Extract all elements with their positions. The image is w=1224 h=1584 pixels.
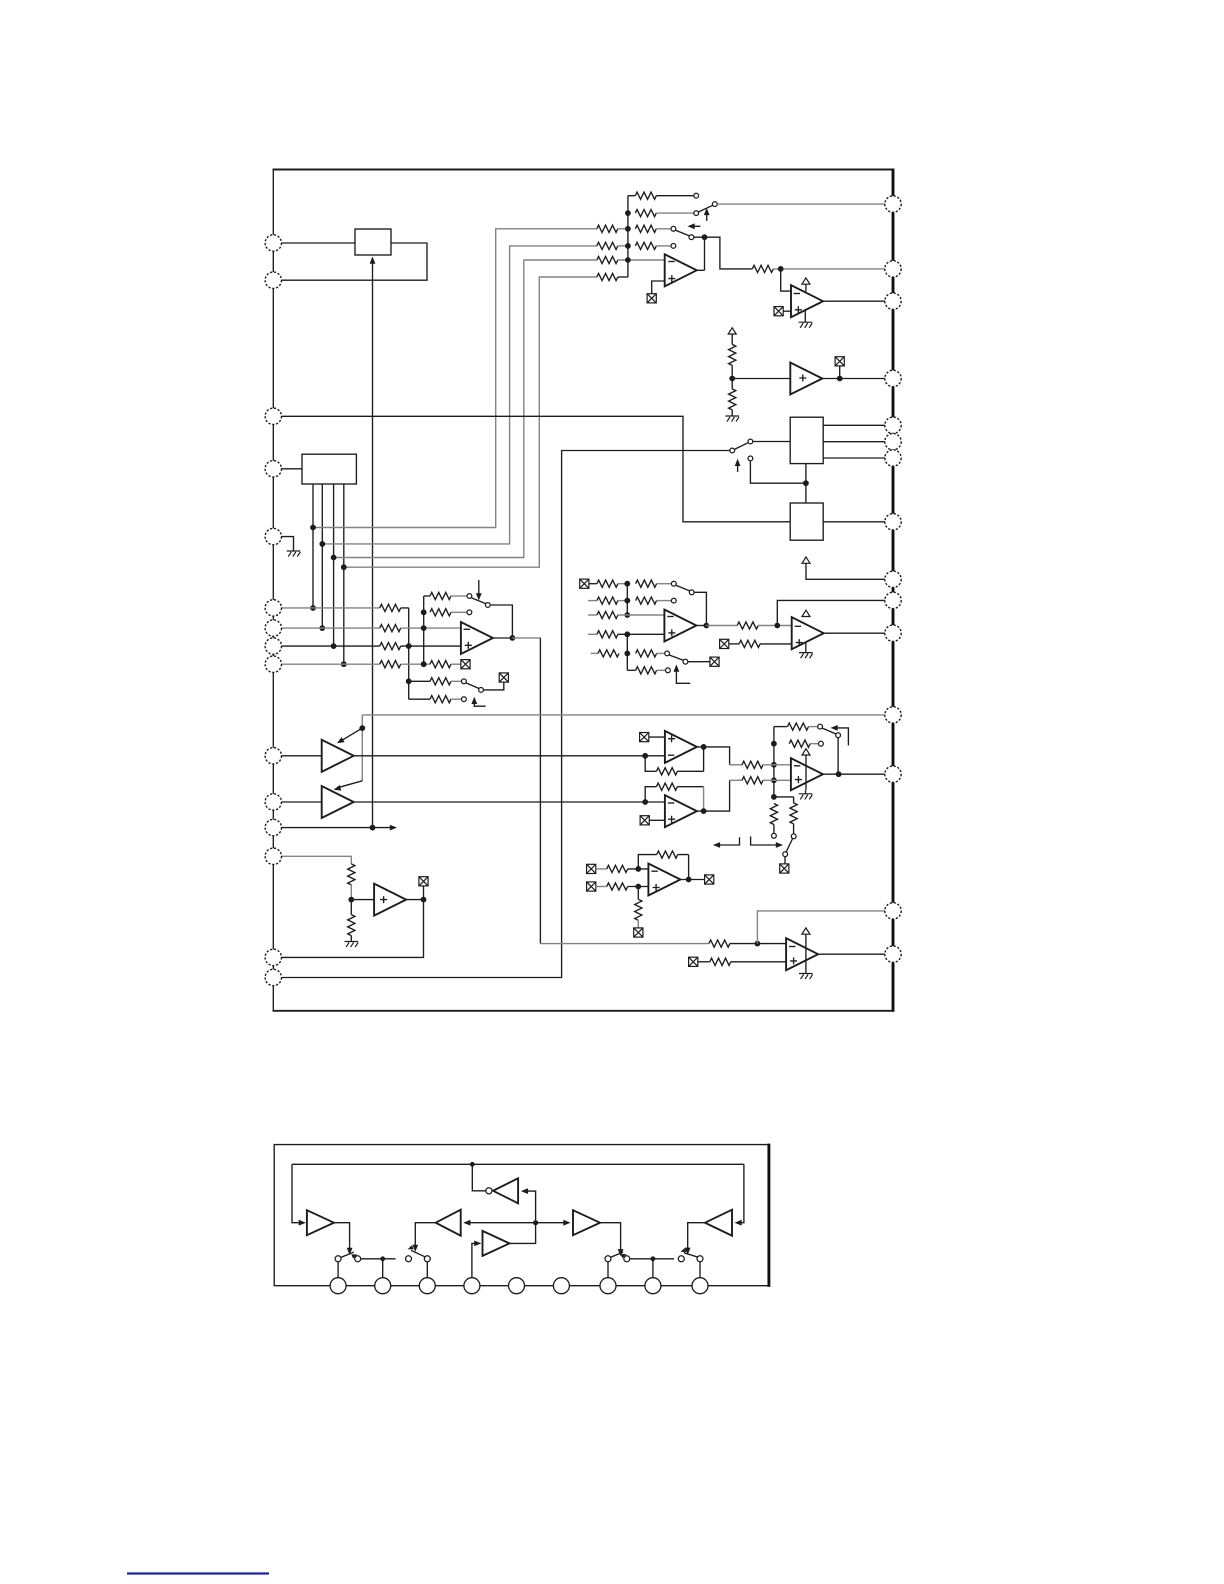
U6 output wire <box>493 637 513 639</box>
U10 feedback resistor R41 <box>656 783 677 790</box>
plus ladder resistor R20 <box>409 698 430 700</box>
op-amp U12 mixer3 <box>664 610 696 642</box>
switch S1 contact a <box>335 1256 341 1262</box>
box B1 <box>790 417 823 463</box>
arrow into buffer U8 <box>337 781 362 788</box>
op-amp U4 <box>791 285 823 317</box>
pin 25 <box>885 434 901 450</box>
pad 9 <box>692 1278 708 1294</box>
top mixer summing bus vertical <box>627 196 629 277</box>
A3 output wire down to switch S3 <box>600 1223 621 1252</box>
wire ladder pole to X-box <box>483 682 503 690</box>
pin 6 <box>265 600 281 616</box>
plus ladder row C throw contact <box>462 679 467 684</box>
U16 output wire to pin 15b <box>818 953 885 955</box>
junction dot divider tap <box>729 376 735 382</box>
feedback row A resistor R34 <box>774 726 788 728</box>
pin 7 input wire <box>281 627 380 629</box>
top mixer row5 input resistor R7 <box>597 256 618 263</box>
switch S3 contact a <box>605 1256 611 1262</box>
junction dot at U10 output <box>701 808 707 814</box>
U11 output wire <box>406 899 423 901</box>
power symbol above U16 <box>802 928 810 934</box>
U9 feedback lower wire <box>645 756 656 772</box>
stem junction to pad 2 <box>382 1259 384 1278</box>
pin 17 <box>885 903 901 919</box>
junction dot above pad 2 <box>380 1256 385 1261</box>
pin 5 <box>265 528 281 544</box>
pin 1 <box>265 235 281 251</box>
bias switch lever <box>786 839 792 852</box>
mute resistor R18 <box>430 661 451 668</box>
mixer3 row6 throw contact <box>666 668 671 673</box>
reference X-box at U3 + input <box>647 294 656 303</box>
pin 4 wire into control box <box>281 468 302 470</box>
blue footer rule <box>127 1572 269 1574</box>
junction dot U15 minus node <box>635 866 641 872</box>
junction dot at U15 output <box>686 877 692 883</box>
pin 9 <box>265 656 281 672</box>
buffer op-amp U11 <box>374 884 406 916</box>
U10 output wire <box>697 810 704 812</box>
bias right throw contact <box>791 834 796 839</box>
arrowhead into latch box bottom <box>370 257 376 264</box>
switch S2 contact b <box>424 1256 430 1262</box>
X-box at U15 non-inverting input <box>587 882 596 891</box>
U8 output wire to U10 inverting input <box>354 801 665 803</box>
wire row9 to mute resistor <box>401 663 430 665</box>
junction dot at U9 output <box>701 744 707 750</box>
top mixer row4 series resistor R6 <box>635 242 656 249</box>
pin 13b wire to divider resistor <box>281 856 351 864</box>
feedback row A throw contact <box>467 594 472 599</box>
wire S3b to junction and dashed stub <box>630 1258 674 1260</box>
pad 7 <box>600 1278 616 1294</box>
wire box B1 bottom to box B2 <box>805 464 807 503</box>
selector lever <box>734 443 748 450</box>
X-box below R45 <box>634 928 643 937</box>
wire feedback pole to U14 output <box>837 738 839 775</box>
wire divider tap to buffer U5 <box>732 378 790 380</box>
X-box at mute resistor <box>461 660 470 669</box>
pin 8 <box>265 638 281 654</box>
bus 2 routing wire to top mixer row 4 <box>322 246 597 544</box>
wire row8 to U6 non-inverting input <box>401 645 461 647</box>
control box U2 <box>302 454 356 484</box>
box B2 output wire to pin 22 <box>823 521 885 523</box>
series resistor R33 at U13 + input <box>739 640 760 647</box>
op-amp U13 <box>792 617 824 649</box>
wire row3 to U12 inverting input <box>618 614 665 616</box>
feedback switch pole contact <box>836 733 841 738</box>
ground below U14 <box>805 790 807 794</box>
junction dot U11 input <box>348 897 354 903</box>
buffer A1 <box>307 1210 334 1235</box>
pad 2 <box>375 1278 391 1294</box>
wire S1b to junction and dashed stub <box>361 1258 396 1260</box>
U10 feedback upper wire <box>645 787 656 802</box>
mixer3 upper bus vertical <box>626 584 628 615</box>
filter block outline top border <box>274 1144 770 1146</box>
bias resistor R38 left <box>770 804 777 825</box>
ground below R22 <box>345 942 359 948</box>
arrow into buffer U7 <box>341 728 363 741</box>
plus ladder switch lever <box>466 683 479 689</box>
switch S4 contact a <box>678 1256 684 1262</box>
series resistor R37 plus path <box>742 777 763 784</box>
junction dot at U14 output <box>836 771 842 777</box>
pin 11 <box>265 794 281 810</box>
junction dots mixer3 lower <box>624 631 630 656</box>
feedback resistor R17 row B <box>430 609 451 616</box>
divider resistor R10 upper <box>729 344 736 365</box>
series resistor R46 into U16 <box>709 940 730 947</box>
X-box above ladder pole <box>499 673 508 682</box>
mixer3 row5 throw contact <box>665 651 670 656</box>
pin 24 <box>885 450 901 466</box>
stem S3a to pad 7 <box>607 1262 609 1278</box>
junction dot at U5 output <box>837 376 843 382</box>
wire throw A to box B1 <box>753 441 790 443</box>
selector throw A contact <box>748 439 753 444</box>
latch box U1 top-left <box>355 229 391 255</box>
junction dot U15 plus node <box>635 884 641 890</box>
U9 output wire <box>697 746 704 748</box>
junction dots mixer3 upper <box>624 581 630 618</box>
X-box feeding mixer3 row1 <box>580 579 589 588</box>
U15 feedback resistor R44 <box>657 851 678 858</box>
pin 16 <box>885 946 901 962</box>
top mixer row3 throw contact <box>671 226 676 231</box>
wire bias pole to X-box <box>784 857 786 864</box>
op-amp U16 <box>786 938 818 970</box>
switch S2 contact a <box>406 1256 412 1262</box>
pin 13 <box>265 848 281 864</box>
filter block outline right border (thick) <box>767 1144 770 1287</box>
U11 output route to pin 14 <box>281 900 423 958</box>
feedback row A throw contact <box>818 724 823 729</box>
ladder control arrow <box>474 700 485 706</box>
U15 input resistor R42 <box>607 865 628 872</box>
pin 21 <box>885 592 901 608</box>
junction dot above pad 8 <box>651 1256 656 1261</box>
wire U12 output to resistor R32 <box>706 625 737 627</box>
mixer3 mute switch pole <box>683 659 688 664</box>
X-box at U9 + input <box>640 733 649 742</box>
feedback resistor R16 row A <box>424 595 430 597</box>
box B2 <box>790 503 823 540</box>
U5 output wire to pin 26 <box>822 378 885 380</box>
top mixer row1 feedback resistor R1 <box>635 192 656 199</box>
bus 3 routing wire to top mixer row 5 <box>334 260 597 558</box>
mixer3 row4 stub and resistor R28 <box>588 633 597 635</box>
junction dot row2 on bus <box>625 210 631 216</box>
U9 feedback resistor R40 <box>656 768 677 775</box>
inverter A5 bubble <box>486 1188 492 1194</box>
stem S1a to pad 1 <box>337 1262 339 1278</box>
junction dots on control bus lines <box>310 525 347 668</box>
pad 8 <box>645 1278 661 1294</box>
wire down into U4 inverting input <box>781 269 791 291</box>
main node wire into A3 <box>536 1222 567 1224</box>
switch S1 lever with arrow <box>341 1252 354 1257</box>
U10 output jog to U14 non-inverting input <box>704 780 730 811</box>
mixer3 row2 throw contact <box>671 598 676 603</box>
feedback row B throw contact <box>467 610 472 615</box>
top mixer row3 input resistor R3 <box>597 225 618 232</box>
buffer A6 <box>483 1231 510 1256</box>
junction dot between boxes <box>803 480 809 486</box>
pin 3 <box>265 408 281 424</box>
top mixer row2 feedback resistor R2 <box>635 210 656 217</box>
wire upper pole to U12 output <box>694 592 706 625</box>
feedback switch lever <box>822 728 836 734</box>
pad 4 <box>464 1278 480 1294</box>
mixer2 feedback bus vertical <box>423 596 425 664</box>
IC block outline left border <box>272 169 274 1011</box>
power symbol above U4 <box>802 278 810 284</box>
X-box at mute pole <box>710 657 719 666</box>
main node wire up into inverter A5 <box>524 1191 535 1223</box>
box B1 output wires to pins 25,24,23 <box>823 425 885 458</box>
A4 output wire down to switch S4 <box>688 1223 705 1250</box>
junction dot at U9 inverting input <box>642 753 648 759</box>
pad 6 <box>553 1278 569 1294</box>
feedback bus vertical <box>773 727 775 797</box>
junction dot at U6 output <box>510 635 516 641</box>
X-box below bias switch <box>780 864 789 873</box>
A6 output wire up to main node <box>510 1223 536 1244</box>
pin 12 wire with direction arrow <box>281 827 392 829</box>
pin 27 <box>885 370 901 386</box>
mixer3 row6 resistor R31 <box>627 669 635 671</box>
pin 11 wire into buffer U8 <box>281 801 322 803</box>
divider resistor R11 lower <box>729 389 736 410</box>
switch S3 lever with arrow <box>611 1252 624 1257</box>
mixer2 input resistor R12 <box>380 604 401 611</box>
X-box above U11 output <box>419 877 428 886</box>
mixer2 gain switch pole <box>485 603 490 608</box>
U13 output wire to pin 18 <box>824 632 886 634</box>
mixer3 lower bus vertical <box>626 634 628 670</box>
selector throw B contact <box>748 456 753 461</box>
junction dot SW2 node <box>702 234 708 240</box>
main node junction dot <box>533 1220 538 1225</box>
X-box at U4 + input <box>774 307 783 316</box>
op-amp U14 <box>791 758 823 790</box>
stem S2b to pad 3 <box>426 1262 428 1278</box>
wire top left down to buffer A1 <box>292 1164 300 1222</box>
selector switch SW2 pole contact <box>689 235 694 240</box>
feedback wire to pin 19 <box>777 600 885 625</box>
top mixer row6 input resistor R8 <box>597 273 618 280</box>
junction dots mixer2 <box>406 609 427 684</box>
SW2 control arrow left <box>692 225 701 227</box>
resistor R22 below U11 input <box>350 900 352 915</box>
mixer2 gain switch lever <box>472 598 486 604</box>
wire top right down into A4 <box>737 1164 744 1222</box>
power symbol above U14 <box>802 749 810 755</box>
control line from latch box down to pin-11 wire <box>372 262 374 828</box>
plus ladder row D throw contact <box>462 697 467 702</box>
wire SW1 pole to pin 30 <box>717 203 885 205</box>
pin 4 <box>265 461 281 477</box>
mixer2 gain control arrow <box>478 580 480 596</box>
X-box at U15 inverting input <box>587 864 596 873</box>
pin 13 wire up to selector pole <box>281 451 730 978</box>
wire mute pole to X-box <box>688 661 710 663</box>
pin 9 input wire <box>281 663 380 665</box>
bias ladder branch wire <box>774 797 794 803</box>
pin 7 <box>265 620 281 636</box>
pin 14 <box>265 949 281 965</box>
pin 22 <box>885 571 901 587</box>
junction dot at U11 output <box>421 897 427 903</box>
op-amp U10 <box>665 795 697 827</box>
buffer A3 <box>573 1210 600 1235</box>
stem S4b to pad 9 <box>699 1262 701 1278</box>
inverter A5 (left-pointing) <box>493 1178 518 1203</box>
ground below divider <box>725 416 739 422</box>
mixer3 row5 stub and resistor R29 <box>591 652 598 654</box>
X-box at U15 output <box>705 875 714 884</box>
pin 6 input wire <box>281 607 380 609</box>
control bus line 2 vertical <box>321 484 323 628</box>
buffer U8 <box>322 786 354 818</box>
resistor R45 below U15 plus node <box>637 887 639 900</box>
mixer3 row3 stub and resistor R27 <box>588 614 597 616</box>
feedback row B throw contact <box>819 741 824 746</box>
top mixer row4 input resistor R5 <box>597 242 618 249</box>
pin 29 <box>885 261 901 277</box>
pin 10 wire into buffer U7 <box>281 755 322 757</box>
junction dot at U13 inverting node <box>774 623 780 629</box>
U6 output long route to tone amp <box>512 637 540 639</box>
U7 output wire to U9 inverting input <box>354 755 665 757</box>
SW1 control arrow up <box>706 212 708 221</box>
wire into buffer U11 <box>351 899 374 901</box>
junction dot on top wire <box>470 1162 475 1167</box>
wire row4 to U12 non-inverting input <box>618 633 665 635</box>
bias resistor R39 right <box>790 803 797 824</box>
U16 feedback wire to pin 15 <box>757 911 885 944</box>
mixer2 input resistor R15 <box>380 661 401 668</box>
pin 2 <box>265 272 281 288</box>
junction dot at U10 inverting input <box>642 799 648 805</box>
junction dot at R9 output <box>778 266 784 272</box>
U3 output wire up to SW2 node <box>697 237 705 270</box>
IC block outline bottom border <box>273 1010 895 1012</box>
pad 3 <box>419 1278 435 1294</box>
junction dot at U12 output <box>704 623 710 629</box>
plus ladder resistor R19 <box>409 680 430 682</box>
U3 non-inverting input wire <box>652 281 665 294</box>
mixer3 row1 series resistor R24 <box>636 580 657 587</box>
junction dot U16 inverting node <box>755 941 761 947</box>
mixer3 row2 stub and resistor R25 <box>588 600 597 602</box>
bus 1 routing wire to top mixer row 3 <box>313 229 597 528</box>
junction dot row3 on bus <box>625 226 631 232</box>
U15 output wire <box>680 879 704 881</box>
pad 5 <box>509 1278 525 1294</box>
top mixer row1 throw contact <box>694 193 699 198</box>
wire gain pole to U6 output <box>490 605 512 638</box>
ground below U4 <box>804 311 806 323</box>
pin 19 <box>885 707 901 723</box>
top mixer row3 series resistor R4 <box>635 225 656 232</box>
pin 23 <box>885 514 901 530</box>
wire U3 output through resistor R9 to pin 29 <box>752 265 773 272</box>
U4 output wire to pin 28 <box>823 300 885 302</box>
A2 output wire down to switch S2 <box>415 1223 435 1248</box>
junction dot on gray wire <box>359 725 365 731</box>
IC block outline top border <box>273 169 894 171</box>
op-amp U9 <box>665 731 697 763</box>
mixer3 row2 series resistor R26 <box>636 597 657 604</box>
buffer op-amp U5 <box>790 363 822 395</box>
U9 output jog to U14 inverting input <box>704 747 730 765</box>
series resistor R36 minus path <box>742 761 763 768</box>
bias left throw contact <box>772 833 777 838</box>
mixer3 row5 series resistor R30 <box>636 650 657 657</box>
pin 1 wire into latch box <box>281 242 355 244</box>
mute control arrow <box>676 668 690 683</box>
mixer3 gain switch lever upper <box>676 585 690 591</box>
U15 input resistor R43 <box>607 883 628 890</box>
power symbol above U13 <box>802 610 810 616</box>
series resistor R32 <box>737 622 758 629</box>
pin 18 <box>885 766 901 782</box>
filter top distribution wire <box>292 1163 744 1165</box>
IC block outline right border (thick) <box>892 169 895 1012</box>
ground below U13 <box>805 642 807 653</box>
gain switch SW1 pole contact <box>712 202 717 207</box>
pin 12 <box>265 819 281 835</box>
junction dot row4 on bus <box>625 243 631 249</box>
U12 output wire <box>696 625 706 627</box>
control bus line 3 vertical <box>333 484 335 646</box>
switch S1 contact b <box>355 1256 361 1262</box>
junction dots feedback bus <box>771 741 777 800</box>
op-amp U3 summing amp <box>665 254 697 286</box>
pin 15 <box>265 969 281 985</box>
switch S3 contact b <box>624 1256 630 1262</box>
mixer2 input resistor R14 <box>380 643 401 650</box>
X-box at U10 + input <box>640 816 649 825</box>
mixer3 row1 resistor R23 <box>597 580 618 587</box>
pin 10 <box>265 748 281 764</box>
switch S4 contact b <box>697 1256 703 1262</box>
pin 20 <box>885 625 901 641</box>
top mixer row4 throw contact <box>671 244 676 249</box>
pin 28 <box>885 293 901 309</box>
mixer3 mute switch lever <box>669 655 683 660</box>
junction dot row5 on bus <box>625 257 631 263</box>
selector control arrow up <box>737 462 739 472</box>
A1 output wire down to switch S1 <box>334 1223 350 1251</box>
filter block outline bottom border <box>274 1285 770 1287</box>
pin 5 wire to ground <box>281 537 293 551</box>
control bus line 1 vertical <box>312 484 314 608</box>
row 6 link down to + ladder <box>401 608 409 699</box>
gain switch SW1 lever <box>698 205 712 212</box>
X-box at U16 + input <box>689 957 698 966</box>
feedback row B resistor R35 <box>789 740 810 747</box>
stem junction to pad 8 <box>652 1259 654 1278</box>
U15 feedback wire upper <box>638 855 656 869</box>
switch S4 lever with arrow <box>684 1253 698 1257</box>
pin 30 <box>885 196 901 212</box>
